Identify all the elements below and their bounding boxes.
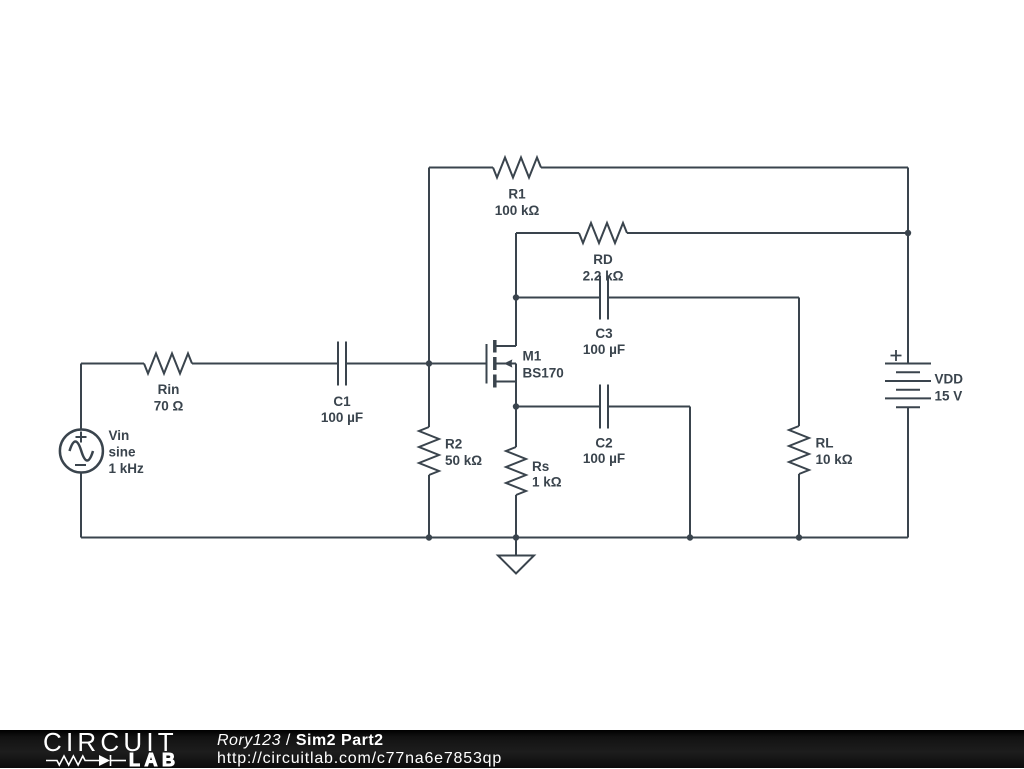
- svg-text:100 µF: 100 µF: [583, 451, 625, 466]
- wire: [81, 363, 144, 365]
- svg-text:C2: C2: [595, 436, 612, 451]
- svg-text:VDD: VDD: [935, 372, 964, 387]
- wire: [516, 406, 600, 408]
- svg-text:sine: sine: [109, 445, 137, 460]
- resistor Rs: [506, 447, 526, 495]
- wire: [80, 364, 82, 430]
- wire: [515, 407, 517, 448]
- node RL bottom junction: [796, 534, 802, 540]
- battery VDD: [885, 350, 931, 407]
- wire: [80, 473, 82, 538]
- node R1/RD/battery junction: [905, 230, 911, 236]
- svg-text:Vin: Vin: [109, 428, 130, 443]
- wire: [689, 407, 691, 538]
- wire: [515, 382, 517, 407]
- resistor R2: [419, 427, 439, 475]
- ground: [498, 538, 534, 574]
- Rin value labels: [154, 382, 184, 414]
- wire: [515, 495, 517, 538]
- wire: [429, 167, 493, 169]
- resistor Rin: [144, 354, 192, 374]
- wire: [346, 363, 487, 365]
- transistor M1: [487, 340, 517, 388]
- node R2 bottom junction: [426, 534, 432, 540]
- wire: [608, 406, 690, 408]
- C2 value labels: [583, 436, 625, 467]
- svg-text:10 kΩ: 10 kΩ: [816, 452, 853, 467]
- node drain/C3 junction: [513, 294, 519, 300]
- svg-text:2.2 kΩ: 2.2 kΩ: [583, 269, 624, 284]
- svg-text:LAB: LAB: [129, 750, 180, 769]
- wire: [907, 407, 909, 537]
- svg-text:C1: C1: [333, 394, 351, 409]
- voltage source Vin: [60, 430, 103, 473]
- wire: [608, 297, 799, 299]
- wire: [627, 232, 908, 234]
- svg-text:RD: RD: [593, 252, 613, 267]
- wire: [428, 364, 430, 428]
- node ground junction: [513, 534, 519, 540]
- svg-text:15 V: 15 V: [935, 389, 963, 404]
- svg-text:1 kΩ: 1 kΩ: [532, 475, 562, 490]
- svg-text:Rin: Rin: [158, 382, 180, 397]
- wire: [907, 168, 909, 234]
- node C2 bottom junction: [687, 534, 693, 540]
- node gate/C1/R2 junction: [426, 360, 432, 366]
- resistor RD: [579, 223, 627, 243]
- wire: [798, 474, 800, 538]
- resistor RL: [789, 426, 809, 474]
- svg-text:C3: C3: [595, 326, 613, 341]
- svg-text:R2: R2: [445, 437, 462, 452]
- svg-text:100 kΩ: 100 kΩ: [495, 203, 540, 218]
- wire: [541, 167, 908, 169]
- resistor R1: [493, 158, 541, 178]
- RL value labels: [816, 436, 853, 468]
- RD value labels: [583, 252, 624, 284]
- svg-text:R1: R1: [508, 187, 526, 202]
- VDD value labels: [935, 372, 964, 404]
- Rs value labels: [532, 459, 562, 490]
- svg-text:RL: RL: [816, 436, 834, 451]
- wire: [515, 298, 517, 347]
- wire: [428, 168, 430, 364]
- wire: [428, 475, 430, 538]
- svg-text:M1: M1: [523, 349, 542, 364]
- capacitor C1: [338, 342, 346, 386]
- wire: [798, 298, 800, 427]
- node source/C2 junction: [513, 403, 519, 409]
- wire: [192, 363, 338, 365]
- wire: [516, 297, 600, 299]
- wire: [516, 232, 579, 234]
- svg-text:Rs: Rs: [532, 459, 549, 474]
- R2 value labels: [445, 437, 482, 469]
- R1 value labels: [495, 187, 540, 219]
- wire: [515, 233, 517, 298]
- svg-text:BS170: BS170: [523, 366, 564, 381]
- svg-text:1 kHz: 1 kHz: [109, 461, 145, 476]
- capacitor C2: [600, 385, 608, 429]
- capacitor C3: [600, 276, 608, 320]
- svg-text:100 µF: 100 µF: [321, 410, 363, 425]
- wire: [907, 233, 909, 364]
- svg-text:50 kΩ: 50 kΩ: [445, 453, 482, 468]
- wire: [81, 537, 908, 539]
- C1 value labels: [321, 394, 363, 425]
- C3 value labels: [583, 326, 625, 357]
- Vin value labels: [109, 428, 145, 476]
- svg-text:70 Ω: 70 Ω: [154, 399, 184, 414]
- M1 value labels: [523, 349, 564, 381]
- svg-text:100 µF: 100 µF: [583, 342, 625, 357]
